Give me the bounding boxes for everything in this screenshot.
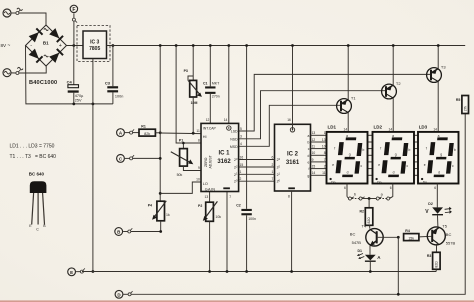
- node D1 on ground rail: [369, 270, 372, 273]
- resistor R1 82k: [133, 125, 161, 136]
- jumper a dashed: [379, 193, 386, 199]
- terminal A: [117, 129, 125, 137]
- svg-text:b: b: [308, 141, 310, 145]
- svg-text:12: 12: [312, 138, 316, 142]
- node IC2 pin16 on rail: [291, 44, 294, 47]
- svg-text:BC: BC: [350, 232, 356, 237]
- segment bus link LD1-LD2: [368, 135, 373, 175]
- LD2 segment letters: [378, 134, 410, 174]
- svg-text:T1 . . . T3 = BC 640: T1 . . . T3 = BC 640: [10, 154, 57, 160]
- +5V supply rail: [107, 45, 466, 47]
- IC2 input pin numbers: [272, 155, 274, 181]
- svg-text:g: g: [440, 153, 442, 157]
- wire IC1 pin14 supply: [228, 46, 230, 128]
- svg-text:-: -: [30, 43, 32, 49]
- wire R1 junction to IC1 pin 11: [160, 132, 201, 135]
- node pin8 feed on rail: [175, 44, 178, 47]
- regulator IC3 7805: [77, 26, 110, 62]
- svg-text:13: 13: [205, 195, 209, 199]
- svg-text:a: a: [392, 134, 394, 138]
- svg-text:IC 1: IC 1: [218, 151, 230, 157]
- LD1 digit segments: [335, 137, 363, 177]
- svg-text:11: 11: [312, 145, 316, 149]
- svg-text:82k: 82k: [144, 132, 150, 136]
- node IC2 pin8 on rail: [290, 270, 293, 273]
- BCD bus wire 2^0: [239, 180, 275, 182]
- segment wires IC2 to LD1: [311, 135, 327, 175]
- LED D2: [425, 202, 452, 227]
- svg-text:7: 7: [272, 177, 274, 181]
- wire +5V rail down the A column: [159, 46, 161, 202]
- svg-text:1: 1: [272, 170, 274, 174]
- AC input terminal bottom: [3, 69, 11, 77]
- svg-text:10: 10: [196, 178, 200, 182]
- svg-text:Dp: Dp: [423, 180, 427, 184]
- svg-text:P1: P1: [179, 139, 183, 143]
- node R2 top: [368, 197, 371, 200]
- svg-text:10: 10: [322, 145, 326, 149]
- wire to LD2 pin6: [390, 184, 393, 199]
- contact at AC bottom: [11, 70, 20, 75]
- svg-text:b: b: [409, 148, 411, 152]
- BC640 package drawing: [29, 172, 47, 232]
- op IC1 CA3162 A/D converter: [201, 123, 239, 191]
- LED D1: [357, 246, 381, 272]
- svg-text:d: d: [308, 154, 310, 158]
- node pin14 on rail: [227, 44, 230, 47]
- svg-text:14: 14: [389, 127, 393, 131]
- svg-text:1k: 1k: [166, 213, 170, 217]
- resistor R5 27k: [456, 96, 469, 114]
- svg-text:10: 10: [312, 151, 316, 155]
- terminal E: [68, 268, 76, 276]
- svg-text:14: 14: [433, 127, 437, 131]
- svg-text:6: 6: [390, 186, 392, 190]
- contact at E: [80, 268, 85, 273]
- wire LO pin10 link: [160, 182, 201, 193]
- LD2 digit segments: [381, 137, 409, 177]
- trimmer P2 10k: [198, 192, 221, 273]
- svg-text:LD2: LD2: [374, 124, 383, 129]
- trimmer P4 1k: [148, 201, 170, 232]
- svg-text:F: F: [72, 7, 75, 13]
- svg-text:6: 6: [272, 155, 274, 159]
- svg-text:82Ω: 82Ω: [434, 261, 438, 268]
- svg-text:16: 16: [240, 155, 244, 159]
- contact at B: [123, 228, 132, 233]
- bottom scan edge line: [0, 300, 474, 302]
- BCD bus wire 2^3: [239, 159, 275, 161]
- contact a right: [386, 195, 392, 201]
- wire T2 emitter to rail: [392, 46, 394, 86]
- svg-text:a: a: [308, 134, 310, 138]
- svg-text:2: 2: [240, 177, 242, 181]
- svg-text:INT.CAP: INT.CAP: [203, 127, 217, 131]
- wire bridge minus down and right (0V link): [26, 46, 113, 104]
- bridge rectifier B1: [26, 25, 67, 66]
- IC2 output pin numbers: [312, 131, 316, 175]
- svg-text:P3: P3: [184, 69, 188, 73]
- svg-text:IC 2: IC 2: [287, 152, 299, 158]
- svg-text:a: a: [346, 134, 348, 138]
- tilde mark bottom: [17, 67, 23, 69]
- LD3 decimal point: [421, 178, 427, 184]
- svg-text:14: 14: [344, 127, 348, 131]
- LD2 decimal point: [375, 178, 381, 184]
- svg-text:e: e: [378, 163, 380, 167]
- svg-text:11: 11: [322, 171, 326, 175]
- svg-text:NSD: NSD: [230, 137, 238, 141]
- node pin7 on ground rail: [226, 270, 229, 273]
- svg-text:10k: 10k: [215, 215, 221, 219]
- contact a left: [376, 195, 382, 201]
- svg-text:P2: P2: [198, 204, 202, 208]
- node B/P4: [159, 230, 162, 233]
- svg-text:3161: 3161: [286, 160, 300, 166]
- transistor T4 BC547B: [350, 224, 383, 246]
- 0V ground rail: [82, 271, 436, 273]
- svg-text:6: 6: [344, 186, 346, 190]
- svg-text:T2: T2: [396, 81, 401, 86]
- capacitor C3: [105, 46, 123, 104]
- tilde mark top: [17, 8, 23, 10]
- svg-text:LD1: LD1: [328, 124, 337, 129]
- trimmer P3 10M: [184, 44, 202, 133]
- transistor T5 BC557B: [427, 223, 455, 245]
- wire T1 emitter to rail: [347, 46, 349, 100]
- node A column on rail: [159, 44, 162, 47]
- AC input terminal top: [3, 9, 11, 17]
- svg-text:LSD: LSD: [231, 130, 238, 134]
- svg-text:3162: 3162: [217, 159, 231, 165]
- wire bridge + to IC3: [67, 45, 84, 47]
- contact b right: [359, 195, 365, 201]
- node C junction: [159, 157, 162, 160]
- svg-text:T3: T3: [441, 64, 446, 69]
- LD1 decimal point: [329, 178, 335, 184]
- svg-text:15: 15: [312, 165, 316, 169]
- contact at A: [125, 129, 134, 134]
- display LD2 7750: [373, 124, 415, 183]
- svg-text:R2: R2: [360, 209, 365, 213]
- node C4 bottom: [72, 103, 75, 106]
- svg-text:IC 3: IC 3: [90, 40, 99, 46]
- svg-text:P4: P4: [148, 204, 152, 208]
- wire T3 collector to LD3 pin14: [437, 82, 439, 132]
- svg-text:B40C1000: B40C1000: [29, 80, 57, 86]
- svg-text:f: f: [380, 146, 381, 150]
- svg-text:GAIN: GAIN: [205, 187, 215, 191]
- svg-text:15: 15: [240, 163, 244, 167]
- svg-text:C1: C1: [203, 82, 208, 86]
- contact at D: [128, 291, 133, 296]
- wire AC bottom to bridge: [19, 66, 46, 73]
- node P3 bottom on pin11 wire: [192, 132, 195, 135]
- wire F down to input rail: [73, 21, 75, 45]
- svg-text:MSD: MSD: [230, 145, 238, 149]
- svg-text:5: 5: [240, 127, 242, 131]
- svg-text:16: 16: [287, 118, 291, 122]
- LD1 input pin numbers: [322, 131, 326, 175]
- node T3 on rail: [437, 44, 440, 47]
- svg-text:7805: 7805: [89, 46, 100, 52]
- terminal C: [117, 155, 125, 163]
- wire T1 collector to LD1 pin14: [347, 113, 349, 132]
- svg-text:LO: LO: [203, 182, 208, 186]
- svg-text:3: 3: [240, 135, 242, 139]
- LD3 segment letters: [424, 134, 456, 174]
- svg-text:BC: BC: [446, 232, 452, 237]
- decoder IC2 CA3161: [275, 124, 311, 191]
- node IC3 ground at 0V rail: [92, 270, 95, 273]
- svg-text:f: f: [426, 146, 427, 150]
- node T4 base junction: [397, 236, 400, 239]
- svg-text:15k: 15k: [408, 237, 414, 241]
- svg-text:7: 7: [229, 195, 231, 199]
- node on D line: [397, 293, 400, 296]
- svg-text:LD3: LD3: [419, 124, 428, 129]
- IC1 pin number labels: [196, 118, 243, 182]
- wire IC3 ground down to 0V rail: [92, 59, 94, 272]
- digit driver routing LSD to T3: [239, 74, 431, 131]
- svg-text:14: 14: [312, 171, 316, 175]
- wire LD1 pin6 down: [344, 184, 347, 197]
- svg-text:d: d: [393, 170, 395, 174]
- svg-text:g: g: [349, 153, 351, 157]
- svg-text:e: e: [424, 163, 426, 167]
- svg-text:e: e: [308, 160, 310, 164]
- svg-text:50k: 50k: [177, 173, 183, 177]
- segment bus link LD2-LD3: [414, 135, 418, 175]
- svg-text:b: b: [454, 148, 456, 152]
- svg-text:8: 8: [288, 195, 290, 199]
- capacitor C2 100n decoupling: [236, 44, 256, 273]
- svg-text:270n: 270n: [212, 95, 220, 99]
- svg-text:9: 9: [312, 158, 314, 162]
- svg-text:f: f: [334, 146, 335, 150]
- svg-text:10M: 10M: [191, 101, 198, 105]
- svg-text:e: e: [332, 163, 334, 167]
- svg-text:13: 13: [312, 131, 316, 135]
- transistor T1 BC640: [337, 95, 357, 113]
- svg-text:+: +: [59, 43, 62, 49]
- wire T4 base to R4 node: [378, 236, 399, 238]
- svg-text:8: 8: [198, 138, 200, 142]
- terminal F: [70, 5, 77, 13]
- wire pin8 feed from rail: [176, 46, 201, 144]
- contact below F: [72, 13, 77, 22]
- svg-text:R1: R1: [141, 125, 146, 129]
- svg-text:8: 8: [324, 151, 326, 155]
- digit driver routing NSD to T2: [239, 91, 386, 139]
- BCD bus wire 2^1: [239, 173, 275, 175]
- wire C to column: [133, 157, 161, 159]
- svg-text:11: 11: [196, 129, 200, 133]
- contact at AC top: [11, 10, 20, 15]
- wire AC top to bridge: [19, 13, 46, 25]
- svg-text:R3: R3: [427, 254, 432, 258]
- svg-text:Dp: Dp: [331, 180, 335, 184]
- jumper b dashed: [352, 193, 359, 199]
- resistor R4 15k: [404, 229, 432, 240]
- node T2 on rail: [392, 44, 395, 47]
- svg-text:7: 7: [324, 158, 326, 162]
- svg-text:14: 14: [224, 118, 228, 122]
- svg-text:4: 4: [240, 142, 242, 146]
- svg-text:d: d: [347, 170, 349, 174]
- svg-text:100n: 100n: [248, 217, 256, 221]
- resistor R3 82ohm: [427, 244, 440, 272]
- LD1 segment letters: [332, 134, 364, 174]
- digit driver routing MSD to T1: [239, 105, 341, 146]
- resistor R2 82ohm: [360, 199, 373, 229]
- svg-text:25V: 25V: [75, 98, 82, 102]
- svg-text:9: 9: [198, 166, 200, 170]
- wire B to P4: [131, 231, 161, 233]
- svg-text:b: b: [363, 148, 365, 152]
- transistor T3 BC640: [427, 64, 447, 82]
- capacitor C1 270n MKT: [203, 44, 220, 123]
- svg-text:R4: R4: [405, 229, 410, 233]
- svg-text:HI: HI: [203, 135, 207, 139]
- terminal D: [115, 290, 123, 298]
- display LD3 7750: [418, 124, 459, 183]
- svg-text:f: f: [308, 167, 309, 171]
- svg-text:557B: 557B: [446, 241, 456, 246]
- LD3 digit segments: [427, 137, 455, 177]
- contact Dp chain left: [347, 195, 354, 201]
- svg-text:547B: 547B: [352, 240, 362, 245]
- svg-text:ADJUST: ADJUST: [209, 155, 213, 168]
- svg-text:82Ω: 82Ω: [367, 217, 371, 224]
- contact at C: [125, 155, 134, 160]
- svg-text:27k: 27k: [464, 105, 468, 111]
- svg-text:2: 2: [324, 165, 326, 169]
- node T1 on rail: [347, 44, 350, 47]
- node LO link junction: [159, 192, 162, 195]
- node A/R1 junction: [159, 131, 162, 134]
- svg-text:g: g: [308, 174, 310, 178]
- svg-text:6: 6: [434, 186, 436, 190]
- svg-text:ZERO: ZERO: [204, 157, 208, 167]
- transistor T2 BC640: [382, 81, 402, 99]
- svg-text:b: b: [354, 193, 356, 197]
- node IC3 ground crossing: [92, 103, 95, 106]
- svg-text:d: d: [438, 170, 440, 174]
- svg-text:C3: C3: [105, 81, 111, 86]
- wire T3 emitter to rail: [437, 46, 439, 69]
- BCD bus wire 2^2: [239, 166, 275, 168]
- wire junction down to D line: [397, 237, 399, 294]
- svg-text:1: 1: [324, 131, 326, 135]
- wire LD3 pin6 to D2: [434, 184, 437, 208]
- svg-text:g: g: [395, 153, 397, 157]
- trimmer P1 50k: [171, 139, 201, 177]
- svg-text:12: 12: [206, 118, 210, 122]
- svg-text:C4: C4: [67, 79, 73, 84]
- svg-text:E: E: [70, 270, 73, 275]
- svg-text:D2: D2: [428, 202, 433, 206]
- wire T2 collector to LD2 pin14: [392, 98, 394, 132]
- svg-text:MKT: MKT: [212, 82, 220, 86]
- svg-text:T5: T5: [442, 223, 447, 228]
- wire to R2 node: [362, 198, 376, 200]
- node: F/C4 junction on input: [72, 44, 75, 47]
- svg-text:2: 2: [272, 163, 274, 167]
- svg-text:D1: D1: [358, 249, 363, 253]
- IC2 pin16 supply wire: [292, 46, 294, 130]
- IC2 pin8 ground wire: [291, 191, 293, 272]
- svg-text:T1: T1: [351, 95, 356, 100]
- wire E to rail: [76, 271, 80, 273]
- svg-text:BC 640: BC 640: [29, 172, 45, 177]
- node C3 top on +5V rail: [112, 44, 115, 47]
- display LD1 7750: [327, 124, 368, 183]
- terminal B: [115, 228, 123, 236]
- svg-text:B1: B1: [43, 41, 49, 46]
- svg-text:Dp: Dp: [377, 180, 381, 184]
- svg-text:13: 13: [322, 138, 326, 142]
- svg-text:C2: C2: [236, 204, 241, 208]
- wire D line to R5 column: [123, 114, 465, 295]
- capacitor C4 electrolytic: [67, 46, 85, 104]
- svg-text:a: a: [438, 134, 440, 138]
- svg-text:LD1 . . . LD3 = 7750: LD1 . . . LD3 = 7750: [10, 144, 55, 150]
- svg-text:1: 1: [240, 170, 242, 174]
- svg-text:T4: T4: [362, 224, 367, 229]
- wire IC1 pin7 ground: [226, 192, 228, 272]
- svg-text:100n: 100n: [115, 94, 123, 98]
- svg-text:R5: R5: [456, 98, 461, 102]
